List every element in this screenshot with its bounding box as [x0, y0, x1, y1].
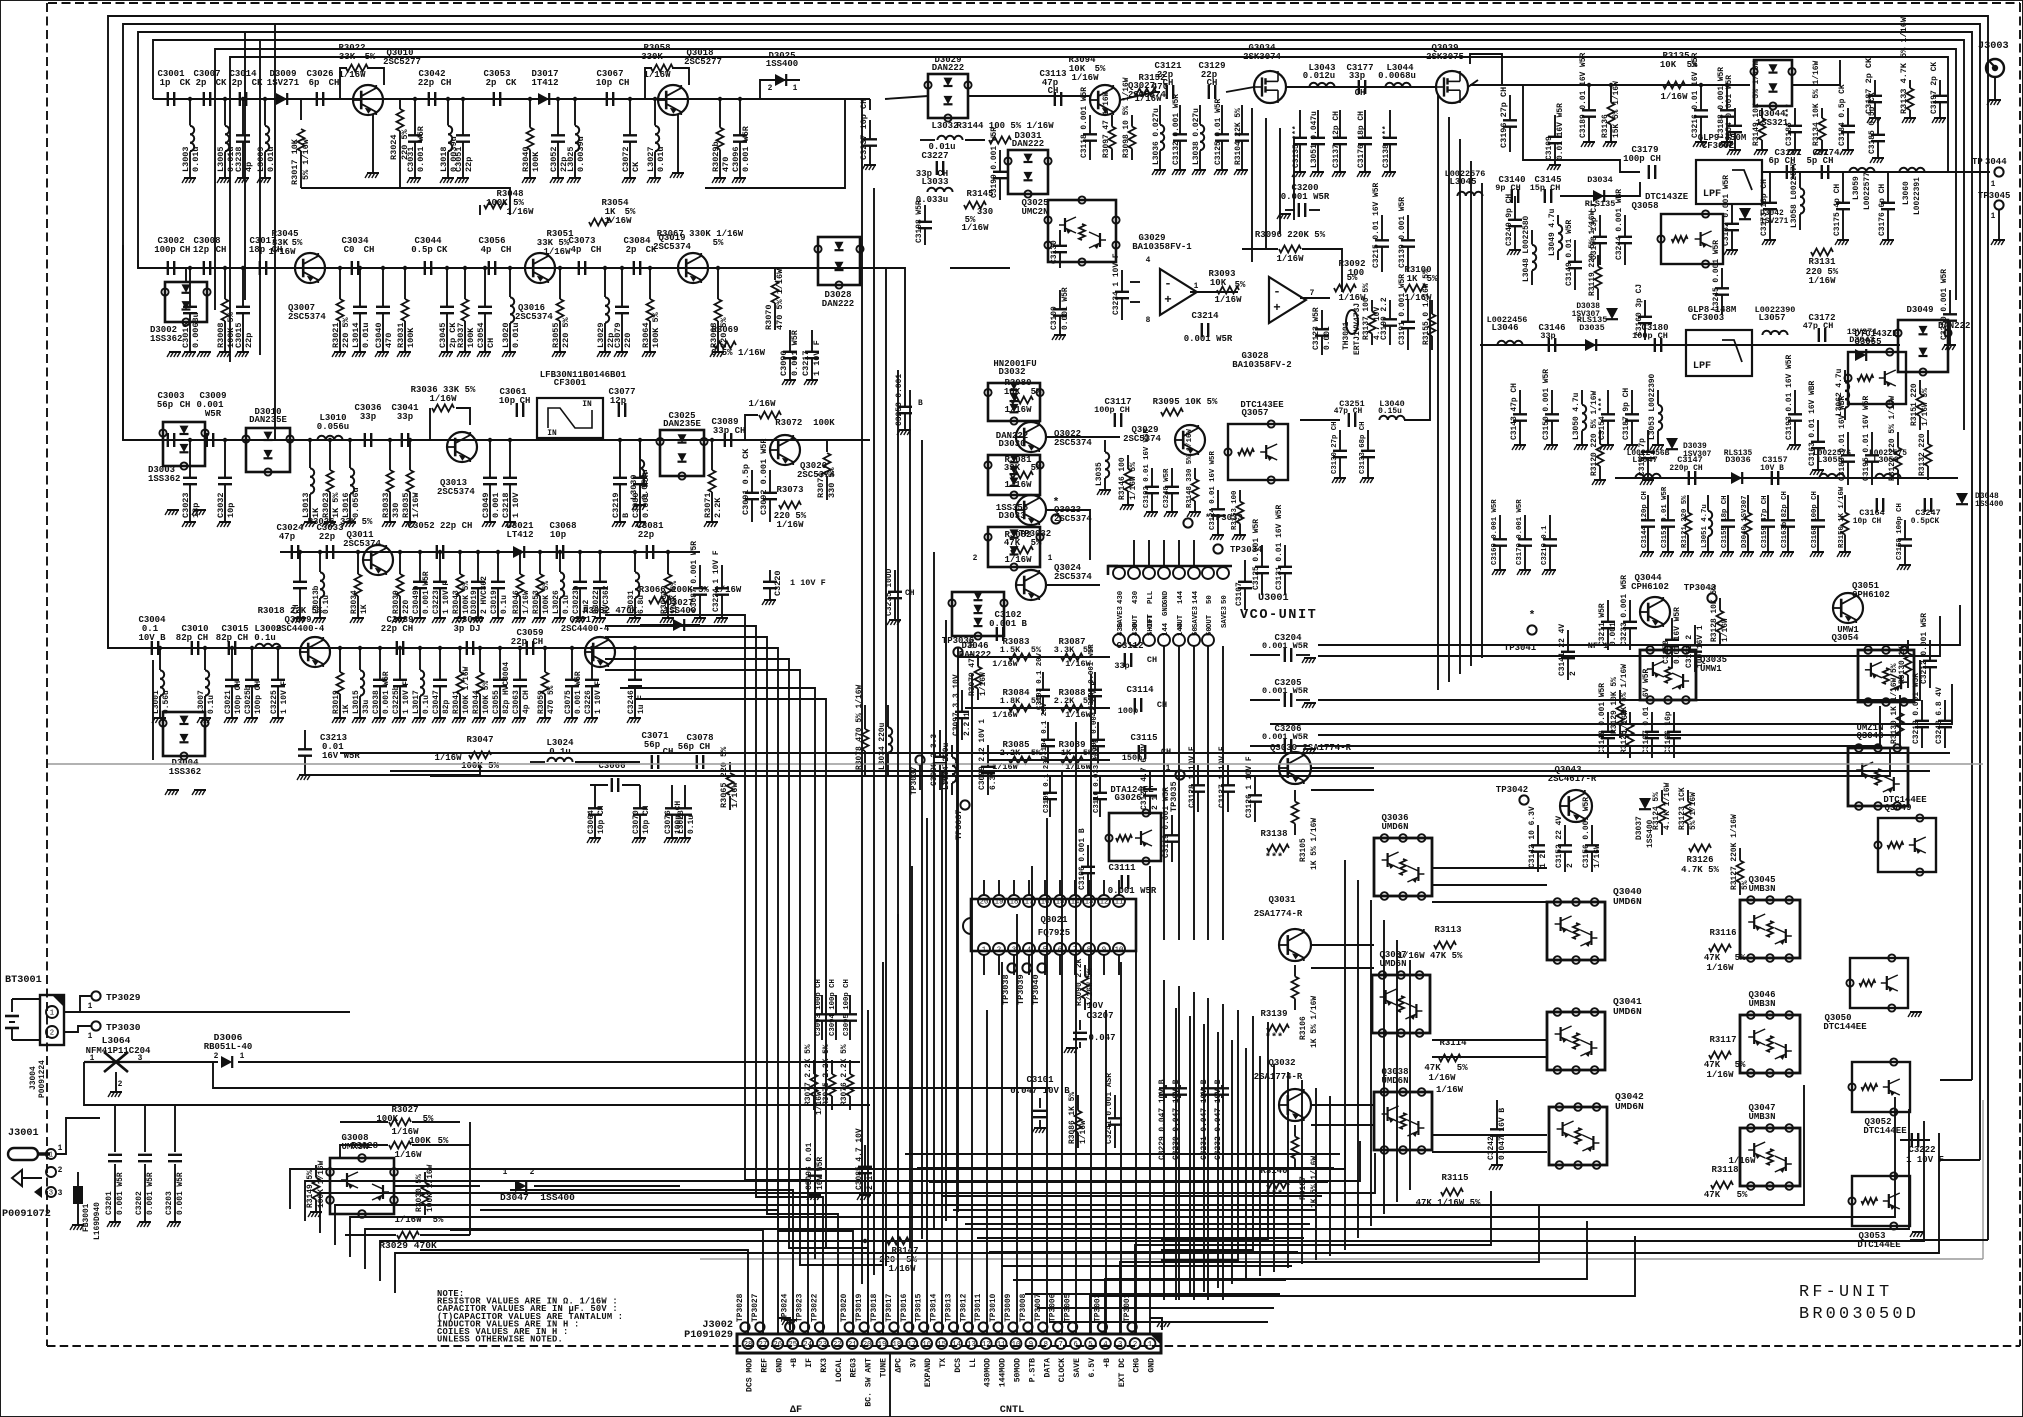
op-amp U3002B: [1269, 277, 1306, 323]
svg-text:1 10V F: 1 10V F: [790, 578, 826, 588]
capacitor C3072: [629, 99, 631, 135]
capacitor C3174: [1821, 165, 1823, 179]
capacitor C3047: [439, 648, 441, 680]
resistor R3095: [1161, 409, 1183, 416]
svg-text:0.001 W5R: 0.001 W5R: [146, 1172, 155, 1215]
inductor L3015: [359, 648, 361, 670]
transistor Q3032: [1279, 1089, 1311, 1121]
svg-text:CH: CH: [591, 245, 602, 255]
svg-text:330 5%: 330 5%: [827, 466, 837, 498]
resistor R3148: [1194, 468, 1196, 479]
wire riser turn right: [1120, 1206, 1539, 1334]
wire center bus: [921, 440, 923, 1239]
svg-text:2 HVC362: 2 HVC362: [480, 576, 489, 614]
capacitor C3015b: [228, 641, 230, 655]
wire connector riser: [420, 1250, 748, 1334]
svg-text:100p CH: 100p CH: [254, 681, 263, 714]
svg-text:DTA124EE: DTA124EE: [1110, 785, 1154, 795]
wire bus: [138, 32, 1972, 1080]
svg-text:0 5% 1/16W: 0 5% 1/16W: [711, 348, 766, 358]
svg-text:2SC5374: 2SC5374: [653, 242, 691, 252]
svg-text:IN: IN: [547, 429, 557, 438]
svg-text:C3223: C3223: [432, 590, 441, 614]
svg-text:26: 26: [773, 1341, 782, 1349]
svg-text:R3115: R3115: [1441, 1173, 1468, 1183]
capacitor C3173: [1769, 172, 1771, 203]
svg-text:DAN222: DAN222: [1938, 321, 1970, 331]
capacitor C3112: [1124, 653, 1126, 667]
resistor R3022: [340, 68, 347, 99]
test point TP3045: [1994, 200, 2003, 209]
svg-text:***: ***: [1265, 852, 1283, 864]
svg-text:100K: 100K: [406, 327, 416, 348]
svg-text:C3091 0.5p CK: C3091 0.5p CK: [741, 448, 751, 515]
svg-text:12p: 12p: [610, 396, 626, 406]
svg-text:1/16W: 1/16W: [992, 710, 1018, 720]
svg-text:C3249 9p CH: C3249 9p CH: [1505, 194, 1514, 246]
resistor R3127: [1739, 848, 1741, 861]
pin J3002-19: [877, 1338, 888, 1349]
svg-text:CNTL: CNTL: [1000, 1405, 1024, 1416]
svg-text:C3100: C3100: [1050, 306, 1059, 330]
svg-text:C3104 0.1 20V: C3104 0.1 20V: [1041, 702, 1049, 760]
resistor R3084: [1009, 705, 1031, 712]
svg-text:11: 11: [997, 1341, 1006, 1349]
wire batt line4: [84, 1062, 155, 1105]
svg-text:50: 50: [1221, 595, 1229, 604]
resistor R3027: [389, 1119, 411, 1126]
wire connector stair riser: [605, 637, 838, 1334]
resistor R3054: [589, 219, 611, 226]
inductor L3003: [189, 99, 191, 126]
component C3163b: [1787, 495, 1789, 520]
capacitor C3142: [1537, 825, 1539, 845]
svg-text:C3229 0.047 10V B: C3229 0.047 10V B: [1158, 1079, 1167, 1160]
svg-text:C3080: C3080: [631, 492, 641, 518]
wire row4 signal: [280, 551, 700, 553]
resistor R3082: [1011, 547, 1033, 554]
wire right bus turn1: [1910, 1239, 1988, 1241]
pin J3002-25: [787, 1338, 798, 1349]
svg-text:24: 24: [803, 1341, 812, 1349]
svg-text:R3149 5%: R3149 5%: [306, 1170, 315, 1208]
pin G3021 pin13: [1083, 895, 1095, 907]
pin VCO bottom 7: [1202, 634, 1214, 646]
svg-text:Q3032: Q3032: [1268, 1058, 1295, 1068]
resistor R3047: [469, 752, 491, 759]
resistor R3116: [1709, 945, 1731, 952]
svg-text:Q3031: Q3031: [1268, 895, 1296, 905]
wire vco-down bus: [1161, 1022, 1268, 1240]
wire q-umd link: [1311, 789, 1374, 791]
svg-text:100K 5%: 100K 5%: [482, 681, 491, 714]
svg-text:C3185 0.5p CK: C3185 0.5p CK: [1868, 92, 1877, 154]
capacitor C3138: [1389, 110, 1391, 138]
diode D3046 box: [952, 592, 1004, 636]
capacitor C3032: [224, 440, 226, 478]
svg-text:C3063: C3063: [512, 690, 521, 714]
svg-text:56p: 56p: [644, 740, 660, 750]
svg-text:C3158: C3158: [1662, 640, 1671, 664]
capacitor C3133: [1367, 430, 1369, 451]
wire pll vertical: [1265, 118, 1267, 248]
svg-text:47K: 47K: [1704, 1060, 1721, 1070]
svg-text:C3191 0.001 W5R: C3191 0.001 W5R: [1398, 274, 1407, 345]
svg-text:330: 330: [391, 503, 401, 518]
transistor Q3052 box: [1852, 1062, 1910, 1112]
svg-text:1/16W: 1/16W: [1004, 555, 1032, 565]
wire vco-down bus: [1207, 998, 1209, 1300]
svg-text:C3237 10p CH: C3237 10p CH: [859, 99, 869, 160]
svg-text:1/16W: 1/16W: [815, 1091, 824, 1115]
wire tune down: [889, 1353, 891, 1417]
svg-text:C3066: C3066: [598, 761, 625, 771]
resistor R3131: [1811, 249, 1833, 256]
capacitor C3242: [1496, 1100, 1498, 1129]
wire connector riser: [1075, 722, 1077, 1334]
svg-text:2: 2: [1566, 863, 1575, 868]
svg-text:470 5% 1/16W: 470 5% 1/16W: [775, 268, 785, 330]
svg-text:LPF: LPF: [1693, 361, 1711, 372]
transistor G3008 box: [330, 1158, 394, 1214]
diode D3036: [1731, 472, 1742, 484]
svg-text:1SS362: 1SS362: [150, 334, 182, 344]
svg-text:14: 14: [952, 1341, 961, 1349]
svg-text:1/16W: 1/16W: [643, 70, 671, 80]
svg-text:C3150 0.001 W5R: C3150 0.001 W5R: [1542, 369, 1551, 440]
svg-text:1SV271: 1SV271: [1760, 217, 1789, 226]
wire connector riser: [941, 770, 943, 1334]
ground conn left: [778, 1318, 790, 1330]
svg-text:C3217: C3217: [801, 350, 811, 376]
wire d3047 out: [534, 1185, 680, 1187]
svg-text:CH: CH: [1147, 655, 1157, 665]
svg-text:18: 18: [893, 1341, 902, 1349]
pin J3002-13: [966, 1338, 977, 1349]
capacitor C3187c: [1631, 390, 1633, 414]
svg-text:0.001 W5R: 0.001 W5R: [416, 125, 426, 172]
wire mid link: [1300, 419, 1340, 421]
svg-text:CH: CH: [1207, 78, 1218, 88]
resistor R3096: [1279, 246, 1301, 253]
test point TP3017: [889, 1322, 898, 1331]
svg-text:470 5%: 470 5%: [547, 685, 556, 714]
test point TP3008: [1023, 1322, 1032, 1331]
svg-text:0.5pCK: 0.5pCK: [1911, 517, 1940, 526]
svg-text:GND: GND: [1162, 590, 1170, 604]
capacitor C3017: [259, 261, 261, 275]
capacitor C3185: [1877, 118, 1879, 135]
capacitor C3097: [961, 690, 963, 712]
svg-text:DATA: DATA: [1043, 1358, 1052, 1378]
resistor R3074: [826, 440, 828, 452]
svg-text:1 2: 1 2: [1539, 854, 1548, 868]
wire g3008 out: [394, 1185, 480, 1187]
pin J3002-20: [862, 1338, 873, 1349]
pin J3002-11: [996, 1338, 1007, 1349]
svg-text:7: 7: [1310, 289, 1315, 298]
pin J3002-22: [832, 1338, 843, 1349]
inductor L3046: [1497, 341, 1505, 345]
capacitor C3176b: [1887, 172, 1889, 203]
svg-text:C3021: C3021: [224, 690, 233, 714]
svg-text:LFB30N11B0146B01: LFB30N11B0146B01: [540, 370, 627, 380]
wire mesh h: [1025, 1293, 1280, 1295]
capacitor C3213: [304, 730, 306, 749]
svg-text:1/16W: 1/16W: [1276, 254, 1304, 264]
wire mesh h: [1001, 1265, 1292, 1267]
inductor L3050: [1581, 390, 1583, 405]
svg-text:0.012u: 0.012u: [1303, 71, 1335, 81]
svg-text:10p CH: 10p CH: [642, 805, 651, 834]
wire mesh h: [989, 1251, 1298, 1253]
resistor R3046: [519, 552, 521, 574]
svg-text:6.3V: 6.3V: [989, 771, 998, 790]
pin VCO top 6: [1188, 567, 1200, 579]
svg-text:1/16W: 1/16W: [1004, 405, 1032, 415]
wire mesh h: [977, 1237, 1304, 1239]
svg-text:0.1u: 0.1u: [254, 633, 276, 643]
capacitor C3234: [1121, 270, 1123, 292]
svg-text:0.1u: 0.1u: [207, 695, 216, 714]
svg-text:TP3022: TP3022: [811, 1293, 820, 1322]
svg-text:2p: 2p: [626, 245, 637, 255]
capacitor C3119: [1171, 815, 1173, 835]
svg-text:R3071: R3071: [703, 492, 713, 518]
svg-text:DCS MOD: DCS MOD: [746, 1358, 755, 1392]
wire q-umd link: [1311, 1104, 1374, 1106]
svg-text:2SA1774-R: 2SA1774-R: [1254, 1072, 1303, 1082]
capacitor C3092: [769, 470, 771, 493]
wire riser turn right: [1135, 1191, 1491, 1334]
svg-text:C3126 1 10V F: C3126 1 10V F: [1245, 756, 1254, 818]
svg-text:2p: 2p: [232, 78, 243, 88]
svg-text:8: 8: [1044, 1341, 1048, 1349]
svg-text:10V: 10V: [1087, 1001, 1104, 1011]
test point TP3014: [934, 1322, 943, 1331]
resistor R3155: [1431, 300, 1433, 314]
svg-text:100p: 100p: [1118, 706, 1138, 716]
transistor G3026 box: [1109, 813, 1161, 861]
capacitor C3249: [1514, 196, 1516, 220]
wire pll vertical: [1279, 128, 1281, 234]
svg-text:GND: GND: [1162, 602, 1170, 616]
inductor L3055: [1819, 474, 1827, 478]
svg-text:EXPAND: EXPAND: [924, 1358, 933, 1387]
capacitor C3121: [1166, 85, 1168, 99]
resistor R3090: [1084, 965, 1086, 977]
capacitor C3038: [379, 648, 381, 680]
capacitor D3019: [477, 552, 479, 582]
svg-text:C3218: C3218: [501, 492, 511, 518]
svg-text:4: 4: [1103, 1341, 1108, 1349]
capacitor C3001: [167, 92, 169, 106]
diode D3035: [1585, 339, 1596, 351]
capacitor C3130: [1059, 230, 1061, 246]
wire bottom bus: [350, 1097, 1895, 1257]
svg-text:25: 25: [788, 1341, 797, 1349]
svg-text:33p: 33p: [1540, 331, 1555, 341]
capacitor C3010: [191, 641, 193, 655]
svg-text:144: 144: [1177, 622, 1185, 636]
svg-text:CH: CH: [441, 78, 452, 88]
svg-text:L3009: L3009: [256, 146, 266, 172]
wire q-umd link: [1311, 767, 1374, 769]
svg-text:C3092 0.001 W5R: C3092 0.001 W5R: [759, 438, 769, 515]
diode D3034: [1593, 190, 1604, 202]
svg-text:1/16W: 1/16W: [1721, 618, 1730, 642]
svg-text:C3225: C3225: [270, 690, 279, 714]
resistor R3132: [1927, 430, 1929, 444]
mosfet G3034: [1254, 71, 1286, 103]
transistor Q3027: [1090, 85, 1120, 115]
svg-text:D3034: D3034: [1587, 175, 1613, 185]
svg-text:82p HVC3004: 82p HVC3004: [502, 662, 511, 714]
svg-text:TP3014: TP3014: [930, 1293, 939, 1322]
resistor R3115: [1441, 1189, 1463, 1196]
svg-text:P0091224: P0091224: [38, 1060, 47, 1098]
svg-text:10: 10: [1115, 947, 1124, 955]
pin J3002-23: [817, 1338, 828, 1349]
svg-text:C3040: C3040: [374, 322, 384, 348]
capacitor C3202: [144, 1105, 146, 1152]
svg-text:C3238: C3238: [234, 146, 244, 172]
svg-text:0.5p: 0.5p: [411, 245, 433, 255]
wire connector riser: [1135, 914, 1137, 1334]
transistor Q3049 box: [1878, 818, 1936, 872]
svg-text:0.056u: 0.056u: [351, 487, 361, 518]
inductor L3036: [1159, 105, 1161, 125]
test point TP3020: [845, 1322, 854, 1331]
test point TP3033: [1183, 518, 1192, 527]
svg-text:L3048 L0022580: L3048 L0022580: [1522, 215, 1531, 282]
svg-text:R3046: R3046: [512, 590, 521, 614]
capacitor C3161: [1647, 430, 1649, 452]
wire midright bus: [1470, 161, 1472, 666]
svg-text:C3167 0.01 16V W5R: C3167 0.01 16V W5R: [1642, 669, 1651, 754]
transistor Q3038 box: [1374, 1092, 1432, 1150]
resistor R3076: [849, 1060, 851, 1074]
svg-text:16: 16: [922, 1341, 931, 1349]
capacitor C3075: [571, 648, 573, 680]
inductor L3058: [1799, 172, 1801, 188]
svg-text:0.001: 0.001: [1609, 622, 1618, 646]
svg-text:10: 10: [1012, 1341, 1021, 1349]
wire connector riser: [867, 1010, 869, 1334]
svg-text:3: 3: [138, 1054, 143, 1063]
capacitor C3109: [1097, 722, 1099, 740]
pin G3021 pin1: [978, 943, 990, 955]
resistor R3059: [544, 648, 546, 672]
svg-text:BA10358FV-1: BA10358FV-1: [1132, 242, 1192, 252]
svg-text:C3047: C3047: [432, 690, 441, 714]
svg-text:C3243 6.8 4V: C3243 6.8 4V: [1935, 687, 1944, 744]
svg-text:L0022456B: L0022456B: [1627, 449, 1670, 458]
svg-text:2: 2: [973, 554, 978, 563]
svg-text:C3156 0.001 W5R: C3156 0.001 W5R: [1582, 797, 1591, 868]
svg-text:C3176 18p CH: C3176 18p CH: [1357, 111, 1366, 168]
test point TP3019: [860, 1322, 869, 1331]
wire row2 signal: [155, 267, 860, 269]
capacitor C3068: [556, 545, 558, 559]
filter CF3003: [1686, 330, 1752, 376]
capacitor C3040: [382, 268, 384, 307]
svg-text:R3151 220: R3151 220: [1910, 383, 1919, 426]
capacitor L3014: [359, 268, 361, 307]
transistor Q3018: [658, 85, 688, 115]
pin VCO bottom 2: [1128, 634, 1140, 646]
pin VCO top 2: [1128, 567, 1140, 579]
wire connector riser: [1001, 962, 1003, 1334]
resistor R3092: [1334, 285, 1356, 292]
resistor R3153: [1239, 490, 1241, 502]
capacitor C3041: [401, 433, 403, 447]
capacitor C3220: [769, 570, 771, 582]
svg-text:R3095 10K 5%: R3095 10K 5%: [1153, 397, 1218, 407]
svg-text:2SC5277: 2SC5277: [684, 57, 722, 67]
svg-text:CH: CH: [1163, 78, 1174, 88]
svg-text:C3016: C3016: [181, 322, 191, 348]
svg-text:6: 6: [1073, 1341, 1077, 1349]
svg-text:RLS135: RLS135: [1577, 315, 1608, 325]
wire row5 signal: [140, 647, 760, 649]
svg-text:R3039: R3039: [392, 590, 401, 614]
svg-text:C3234 1 10V F: C3234 1 10V F: [1112, 253, 1121, 315]
wire bus: [230, 57, 1948, 362]
connector J3002 body: [737, 1334, 1161, 1353]
svg-text:18: 18: [1010, 899, 1019, 907]
capacitor C3227: [936, 161, 938, 175]
wire mid bus b: [390, 770, 1930, 772]
transistor Q3016: [525, 253, 555, 283]
capacitor C3021: [231, 648, 233, 680]
test point TP3044: [1994, 167, 2003, 176]
svg-text:+B: +B: [1103, 1358, 1112, 1368]
capacitor C3213b: [1921, 700, 1923, 721]
inductor L3047: [1635, 474, 1643, 478]
wire q-umd link: [1311, 1124, 1374, 1126]
wire bottom bus: [305, 1141, 1360, 1221]
svg-text:R3120 220 5% 1/16W: R3120 220 5% 1/16W: [1590, 391, 1599, 476]
svg-text:33K: 33K: [339, 52, 356, 62]
resistor R3070: [774, 268, 776, 280]
diode D3044 box: [1754, 60, 1792, 106]
svg-text:R3059: R3059: [537, 690, 546, 714]
wire connector riser: [986, 1010, 988, 1334]
capacitor C3198: [924, 205, 926, 222]
transistor Q3053 box: [1852, 1176, 1910, 1226]
svg-text:15: 15: [1056, 899, 1065, 907]
svg-text:4.7K 5%: 4.7K 5%: [1681, 865, 1719, 875]
svg-text:0.001 B: 0.001 B: [989, 619, 1027, 629]
test point TP3037: [960, 800, 969, 809]
svg-text:1: 1: [50, 1010, 55, 1018]
svg-text:L3053 L0022390: L3053 L0022390: [1648, 373, 1657, 440]
capacitor C3147: [1688, 471, 1690, 485]
svg-text:C3162 2: C3162 2: [1685, 635, 1694, 668]
svg-text:0.001 W5R: 0.001 W5R: [1061, 287, 1070, 330]
svg-text:C3158 100p CH: C3158 100p CH: [1896, 503, 1904, 560]
wire gray bus2: [700, 1258, 1983, 1260]
svg-text:R3121 220 5%: R3121 220 5%: [1681, 495, 1689, 548]
svg-text:82p: 82p: [442, 700, 451, 714]
svg-text:C3246: C3246: [627, 690, 636, 714]
svg-text:C3072: C3072: [621, 146, 631, 172]
svg-text:2.2K: 2.2K: [713, 497, 723, 518]
transistor Q3057 box: [1228, 424, 1288, 480]
resistor R3081: [1011, 472, 1033, 479]
transistor Q3030: [1279, 752, 1311, 784]
